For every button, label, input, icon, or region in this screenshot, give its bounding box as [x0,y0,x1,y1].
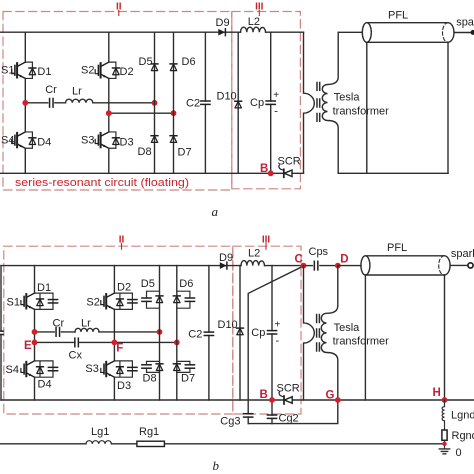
svg-text:Cr: Cr [45,84,57,96]
diode D2 with snubber cap [114,282,137,310]
node G [335,397,341,403]
resistor Rg1 [137,441,165,446]
svg-text:F: F [116,343,123,355]
diode D8 with cap [142,361,163,384]
svg-text:Cp: Cp [250,97,264,109]
svg-text:D5: D5 [139,56,153,68]
diode D3 with snubber cap [114,361,137,392]
svg-text:transformer: transformer [333,105,390,117]
capacitor C2 branch [208,266,210,400]
bottom rail (secondary side) [338,172,448,174]
transistor S3 [101,361,115,377]
capacitor Cr [50,99,54,108]
svg-text:D3: D3 [117,380,131,392]
wire: resonant link [35,331,160,333]
diode D4 [25,132,36,148]
svg-text:+: + [273,90,279,101]
transformer core [317,315,320,352]
svg-text:D7: D7 [178,147,192,159]
red text: series-resonant circuit (floating) [15,177,189,189]
dashed box III [232,12,301,189]
diode D1 [25,62,36,78]
bottom rail [0,172,304,174]
ground symbol [439,449,449,454]
node B [268,170,274,176]
capacitor Cps [306,265,312,267]
svg-text:Rg1: Rg1 [139,426,159,438]
label II [116,2,122,16]
svg-text:D7: D7 [181,373,195,385]
spark gap lead [454,32,471,34]
svg-text:Cg2: Cg2 [279,413,299,425]
SCR [279,392,292,404]
svg-text:Cp: Cp [251,327,265,339]
svg-text:transformer: transformer [333,336,390,348]
svg-text:L2: L2 [248,16,260,28]
svg-text:PFL: PFL [388,10,408,22]
diode D3 [109,132,120,148]
node: Lr wire to D5 leg [157,329,163,335]
svg-text:G: G [326,390,335,402]
node E [32,340,38,346]
left bridge leg [24,32,26,173]
svg-text:B: B [260,389,268,401]
svg-text:b: b [213,458,220,473]
bottom rail [1,399,474,401]
transistor S4 [21,361,35,377]
svg-text:Lr: Lr [81,317,91,329]
rectifier right leg [176,266,178,400]
Tesla transformer primary [304,32,315,173]
PFL coaxial line [361,256,450,275]
svg-text:S2: S2 [81,65,94,77]
svg-text:S3: S3 [81,135,94,147]
diode D4 with snubber cap [35,361,58,390]
transformer core [317,83,320,122]
node F [112,340,118,346]
transistor S3 [95,132,109,148]
svg-text:Cps: Cps [309,246,329,258]
svg-text:D5: D5 [141,278,155,290]
transistor S1 [12,62,26,78]
svg-text:D9: D9 [219,252,233,264]
diode D10 branch [239,266,241,400]
PFL outer conductor [365,275,444,400]
svg-text:S1: S1 [7,296,20,308]
top rail [1,265,304,267]
svg-text:Cr: Cr [53,317,65,329]
svg-text:D10: D10 [218,319,238,331]
input line with dc-link capacitor (cut at edge) [0,266,2,400]
transistor S1 [21,293,35,309]
right bridge leg [108,32,110,173]
wire secondary to PFL [338,31,362,33]
svg-text:S1: S1 [1,65,14,77]
svg-text:S2: S2 [86,296,99,308]
diode D9 [218,29,225,36]
svg-text:PFL: PFL [387,242,407,254]
transistor S4 [12,132,26,148]
diode D7 with cap [173,361,195,384]
svg-text:Lg1: Lg1 [91,426,109,438]
svg-text:D2: D2 [117,282,131,294]
label III [255,2,264,16]
svg-text:D10: D10 [217,91,237,103]
diode D6 with cap [173,278,194,308]
diode D5 [151,64,158,71]
svg-text:spark: spark [451,248,474,260]
left bridge leg [34,266,36,400]
inductor Lg1 [86,441,111,444]
rectifier left leg [159,266,161,400]
SCR [279,165,292,177]
svg-text:SCR: SCR [278,156,301,168]
inductor Lr [75,328,99,332]
capacitor Cp branch [270,32,272,173]
svg-text:Cg3: Cg3 [220,415,240,427]
svg-text:B: B [260,163,268,175]
svg-text:C2: C2 [186,97,200,109]
svg-text:S4: S4 [1,135,14,147]
right bridge leg [113,266,115,400]
svg-text:spark: spark [456,17,474,29]
svg-text:Lr: Lr [72,86,82,98]
wire: resonant link [25,102,154,104]
svg-text:0: 0 [456,447,462,459]
capacitor Cr [56,328,60,337]
node: resonant link to D5 leg [152,100,158,106]
svg-text:Tesla: Tesla [334,92,361,104]
svg-text:Tesla: Tesla [334,322,361,334]
Tesla transformer secondary [322,32,338,173]
diode D5 with cap [141,278,163,308]
capacitor Cg2 branch [271,400,273,424]
label II [119,234,125,249]
capacitor Cx [75,338,79,347]
resistor Rgnd [442,430,447,440]
svg-text:+: + [275,320,281,331]
inductor Lgnd [442,400,444,430]
inductor Lr [66,99,93,103]
svg-text:-: - [276,335,280,347]
rectifier right leg [173,32,175,173]
svg-text:Cx: Cx [69,349,83,361]
svg-text:-: - [274,106,278,118]
Tesla transformer secondary [321,266,338,400]
diode D9 [220,262,227,269]
top rail [0,31,304,33]
svg-text:series-resonant circuit (float: series-resonant circuit (floating) [15,177,189,189]
svg-text:S3: S3 [85,363,98,375]
svg-text:D4: D4 [38,378,52,390]
svg-text:D2: D2 [120,66,134,78]
svg-text:D6: D6 [179,278,193,290]
node: left leg / Cr wire [32,329,38,335]
svg-text:a: a [212,204,219,219]
svg-text:D3: D3 [120,137,134,149]
wire: right-leg midpoint to rectifier [109,112,174,114]
svg-text:D9: D9 [216,17,230,29]
svg-text:D: D [340,254,348,266]
label III [262,234,271,249]
diagonal wire node C to Cg3 [248,266,303,424]
Tesla transformer primary [304,266,315,400]
svg-text:L2: L2 [248,248,260,260]
node: midpoint wire to D6 leg [171,110,177,116]
node H [442,397,448,403]
transistor S2 [95,62,109,78]
ground node [442,442,446,446]
node: left leg midpoint [22,100,28,106]
svg-text:D8: D8 [138,146,152,158]
lower rail Cg3-Cg2-G [248,400,338,424]
dashed box III [233,246,301,414]
svg-text:E: E [24,340,32,352]
PFL outer conductor [367,42,448,173]
svg-text:D1: D1 [37,282,51,294]
wire: E to F with Cx [35,341,177,343]
wire D to PFL [338,265,361,267]
node: right leg midpoint [106,110,112,116]
node B [269,397,275,403]
diode D7 [170,136,177,143]
capacitor C2 branch [204,32,206,173]
long ground wire with Lg1 and Rg1 [0,443,445,445]
diode D1 with snubber cap [35,282,58,309]
svg-text:C: C [295,254,303,266]
transistor S2 [101,293,115,309]
PFL coaxial line [362,23,454,43]
dashed box II [4,246,233,414]
diode D10 branch [237,32,239,173]
rectifier left leg [154,32,156,173]
svg-text:Rgnd: Rgnd [452,430,474,442]
svg-text:Lgnd: Lgnd [451,409,474,421]
svg-text:D1: D1 [37,66,51,78]
node D [335,263,341,269]
svg-text:C2: C2 [188,328,202,340]
node: Cx wire to D6 leg [174,340,180,346]
svg-text:SCR: SCR [277,383,300,395]
svg-text:D4: D4 [37,137,51,149]
spark gap lead [450,264,467,266]
inductor L2 [241,27,266,32]
diode D6 [170,64,177,71]
inductor L2 [241,261,265,266]
capacitor Cp branch [271,266,273,400]
svg-text:D6: D6 [182,56,196,68]
diode D2 [109,62,120,78]
svg-text:S4: S4 [6,364,19,376]
diode D8 [151,136,158,143]
node C [301,263,307,269]
capacitor Cg3 [244,414,253,417]
svg-text:H: H [433,387,441,399]
svg-text:D8: D8 [143,373,157,385]
dashed box II (series-resonant circuit) [3,12,232,191]
